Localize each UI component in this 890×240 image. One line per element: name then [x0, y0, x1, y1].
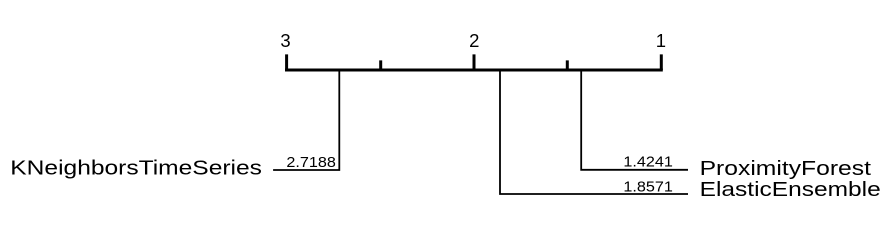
svg-text:1.4241: 1.4241 — [623, 154, 672, 170]
svg-text:2.7188: 2.7188 — [286, 154, 335, 170]
svg-text:2: 2 — [469, 30, 479, 51]
svg-text:1: 1 — [656, 30, 666, 51]
svg-text:ElasticEnsemble: ElasticEnsemble — [700, 178, 881, 200]
svg-text:ProximityForest: ProximityForest — [700, 157, 872, 179]
svg-text:1.8571: 1.8571 — [623, 179, 672, 195]
svg-text:3: 3 — [280, 30, 290, 51]
svg-text:KNeighborsTimeSeries: KNeighborsTimeSeries — [10, 157, 262, 179]
